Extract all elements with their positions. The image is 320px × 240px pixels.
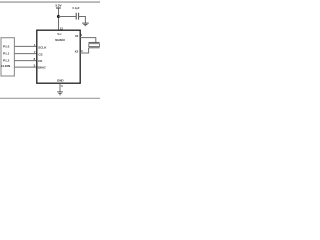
svg-text:CLKIN: CLKIN	[1, 64, 11, 68]
top rule of figure frame	[0, 0, 100, 9]
ground (chip GND)	[57, 87, 63, 96]
wire capacitor to ground	[79, 17, 86, 24]
microcontroller block	[1, 38, 14, 76]
svg-text:4: 4	[80, 33, 82, 37]
svg-text:3: 3	[81, 49, 83, 53]
svg-text:12: 12	[60, 27, 64, 31]
svg-text:MAX6902: MAX6902	[55, 38, 65, 42]
svg-text:P1.1: P1.1	[3, 52, 10, 56]
power rail bar	[56, 3, 61, 13]
ground (capacitor)	[82, 19, 89, 28]
RTC chip U1 body	[37, 30, 80, 83]
wire CLKIN to 32KHZ	[14, 62, 36, 72]
capacitor C1	[71, 13, 81, 20]
svg-text:VCC: VCC	[57, 32, 62, 36]
wire P1.2 to I/O	[14, 56, 36, 66]
svg-text:5: 5	[61, 84, 63, 88]
bottom rule of figure frame	[0, 92, 100, 104]
svg-text:32KHZ: 32KHZ	[38, 66, 47, 70]
svg-text:X1: X1	[75, 34, 79, 38]
wire X1 to crystal	[80, 38, 96, 43]
svg-text:P1.0: P1.0	[3, 44, 10, 48]
svg-text:I/O: I/O	[38, 59, 43, 63]
wire P1.0 to SCLK	[14, 41, 36, 51]
svg-text:CS: CS	[38, 52, 42, 56]
wire X2 to crystal	[80, 48, 88, 53]
svg-text:0.1µF: 0.1µF	[72, 6, 79, 10]
wire P1.1 to CS	[14, 49, 36, 59]
wire junction to capacitor	[58, 12, 76, 22]
svg-text:GND: GND	[57, 79, 64, 83]
svg-text:3.3V: 3.3V	[55, 3, 62, 7]
svg-text:SCLK: SCLK	[38, 45, 47, 49]
crystal Y1	[89, 38, 100, 47]
svg-text:P1.2: P1.2	[3, 59, 10, 63]
wire GND pin to ground	[55, 83, 65, 91]
svg-text:X2: X2	[75, 49, 79, 53]
wire power stem down to chip VCC	[54, 8, 64, 30]
junction dot	[57, 15, 60, 18]
